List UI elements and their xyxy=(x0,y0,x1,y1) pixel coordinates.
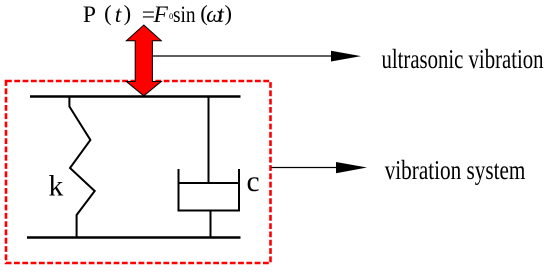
svg-text:t: t xyxy=(115,2,122,28)
svg-text:t: t xyxy=(217,2,224,28)
damper bottom rod xyxy=(210,211,212,238)
damper piston plate xyxy=(179,182,240,184)
arrowhead leader 2 xyxy=(336,162,367,173)
damper C top rod xyxy=(208,97,210,184)
wire leader to vibration system xyxy=(272,167,339,169)
red double-headed arrow xyxy=(126,25,161,96)
wire leader to ultrasonic vibration xyxy=(152,55,333,57)
svg-text:(: ( xyxy=(104,1,112,26)
wire top mass line xyxy=(30,95,241,98)
arrowhead leader 1 xyxy=(331,51,361,62)
dashed red box (vibration system boundary) xyxy=(6,81,271,263)
svg-text:vibration system: vibration system xyxy=(385,154,526,185)
spring k xyxy=(69,97,94,238)
svg-text:c: c xyxy=(247,166,260,198)
svg-text:): ) xyxy=(124,1,132,26)
svg-text:k: k xyxy=(49,171,64,203)
svg-text:ultrasonic vibration: ultrasonic vibration xyxy=(382,43,544,74)
svg-text:F: F xyxy=(153,2,169,28)
svg-text:): ) xyxy=(225,1,233,26)
svg-text:sin: sin xyxy=(173,2,196,28)
svg-text:P: P xyxy=(83,2,96,28)
damper cylinder right wall xyxy=(238,169,240,212)
wire bottom base line xyxy=(27,236,241,239)
label P(t)=F0sin(wt) xyxy=(83,1,232,28)
damper cylinder bottom xyxy=(178,210,241,212)
damper cylinder left wall xyxy=(178,169,180,212)
